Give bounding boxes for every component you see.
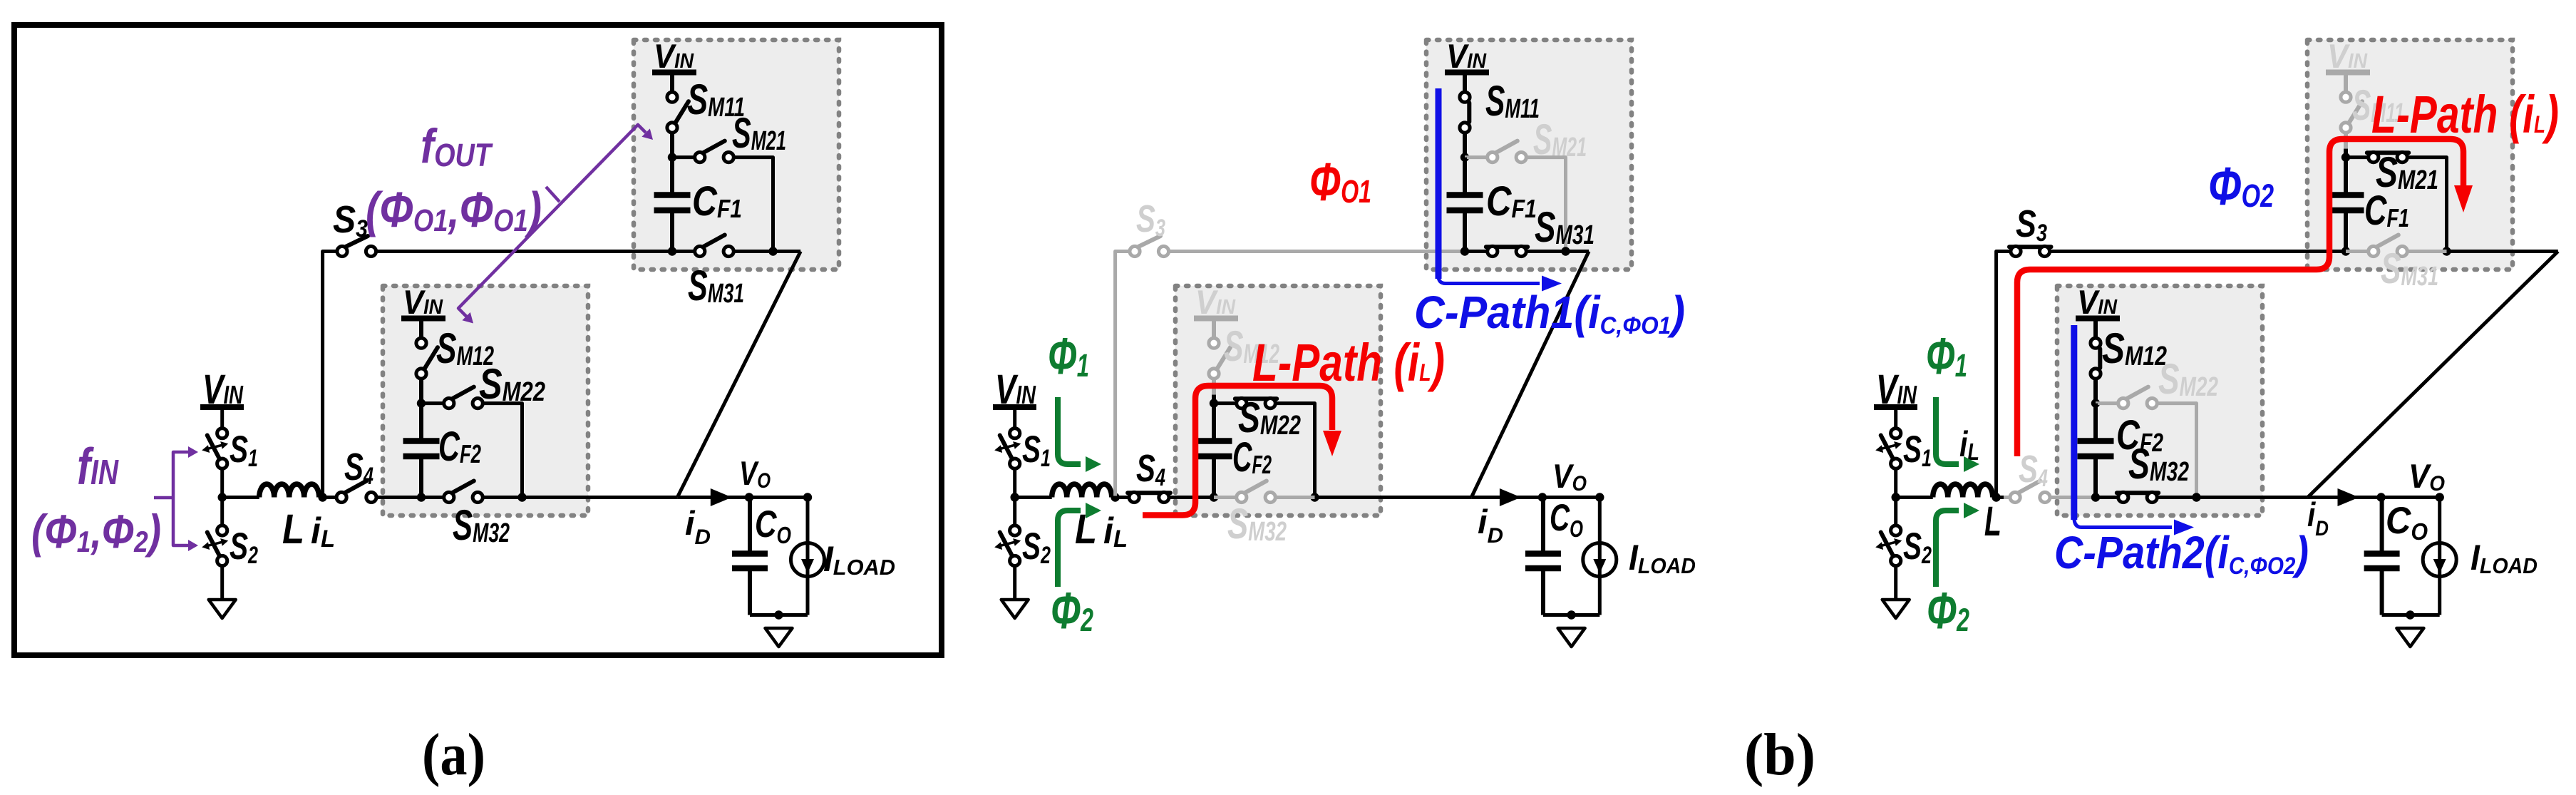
switch SM21 (circuit a) <box>703 141 725 153</box>
wire VIN to SM12 (circuit b) <box>1212 319 1216 338</box>
wire CF2 rail to output (circuit a) <box>522 496 678 499</box>
junction cap top node (circuit c CF1) <box>2341 153 2350 161</box>
wire SM22 to cell right leg (circuit c) <box>2157 404 2196 498</box>
junction right leg to rail (circuit a CF2) <box>517 493 526 501</box>
wire junction to capacitor (circuit b) <box>1212 404 1216 439</box>
junction right leg to rail (circuit b CF2) <box>1310 493 1319 501</box>
junction cap top node (circuit c CF2) <box>2091 399 2100 407</box>
wire capacitor to rail (circuit c) <box>2093 456 2098 498</box>
wire junction to capacitor (circuit a) <box>419 404 423 439</box>
wire junction to SM22 (circuit a) <box>421 401 444 405</box>
current source ILOAD (circuit a) <box>791 543 825 577</box>
wire SM11 to junction (circuit b) <box>1463 133 1467 158</box>
wire CO to bottom rail (circuit c) <box>2380 568 2384 615</box>
junction riser node (circuit a) <box>318 493 326 501</box>
ground output (circuit a) <box>766 628 793 647</box>
wire S3 to CF1 cell (circuit b) <box>1169 250 1465 253</box>
node VO (circuit c) <box>2376 493 2385 501</box>
VIN bar in cell (circuit c CF2) <box>2076 316 2120 322</box>
wire VO to load branch (circuit a) <box>749 498 808 543</box>
panel (a) border frame <box>14 25 942 655</box>
switch SM31 (circuit c) <box>2376 235 2399 247</box>
bottom rail of output (circuit c) <box>2382 613 2440 617</box>
wire SM12 to junction (circuit b) <box>1212 379 1216 404</box>
VIN bar in cell (circuit a CF2) <box>401 316 445 322</box>
annotation fOUT leader arrows (circuit a) <box>546 187 560 202</box>
junction right leg to rail (circuit a CF1) <box>768 247 777 255</box>
junction right leg to rail (circuit c CF2) <box>2192 493 2200 501</box>
VIN bar in cell (circuit c CF1) <box>2326 70 2370 76</box>
wire capacitor to rail (circuit c) <box>2344 210 2348 252</box>
VIN bar in cell (circuit a CF1) <box>652 70 696 76</box>
VIN supply bar (circuit a) <box>200 404 244 410</box>
junction cap bottom node (circuit c CF1) <box>2341 247 2350 255</box>
capacitor CF1 (circuit c) <box>2328 192 2364 198</box>
switch S4 (circuit b) <box>1128 491 1170 495</box>
switch SM22 (circuit b) <box>1235 396 1277 401</box>
VIN bar in cell (circuit b CF1) <box>1445 70 1489 76</box>
wire S3 to CF1 cell (circuit a) <box>376 250 673 253</box>
diagonal wire CF1 to output (circuit b) <box>1471 252 1589 498</box>
rail through SM32 (circuit b) <box>1214 496 1237 499</box>
wire junction to SM21 (circuit a) <box>672 155 695 159</box>
wire node to S2 (circuit c) <box>1894 498 1897 526</box>
annotation C-Path1 blue route (circuit b) <box>1436 88 1442 279</box>
node VO (circuit a) <box>745 493 753 501</box>
bottom rail of output (circuit b) <box>1543 613 1599 617</box>
junction output ground node (circuit b) <box>1567 610 1575 619</box>
rail through SM32 (circuit a) <box>421 496 444 499</box>
wire riser node to S4 (circuit b) <box>1116 496 1130 499</box>
junction cap top node (circuit a CF1) <box>668 153 676 161</box>
wire riser to top rail (circuit c) <box>1997 252 2011 496</box>
cell box CF2 (circuit a) <box>383 286 588 516</box>
wire VIN to SM11 (circuit b) <box>1463 73 1467 92</box>
wire output rail with iD arrow (circuit b) <box>1471 496 1542 499</box>
switch SM32 (circuit b) <box>1245 481 1267 493</box>
wire junction to SM21 (circuit c) <box>2346 155 2369 159</box>
wire VO down to CO (circuit a) <box>748 498 752 554</box>
ground (circuit a) <box>209 600 236 618</box>
capacitor CF2 (circuit c) <box>2078 438 2114 444</box>
inductor L (circuit b) <box>1052 484 1112 497</box>
wire VO down to CO (circuit c) <box>2380 498 2384 554</box>
wire node to inductor (circuit b) <box>1015 496 1052 499</box>
junction cap bottom node (circuit a CF2) <box>417 493 426 501</box>
wire SM21 to cell right leg (circuit b) <box>1526 158 1565 252</box>
junction switch node (circuit a) <box>218 493 227 501</box>
wire junction to SM22 (circuit c) <box>2096 401 2118 405</box>
wire S1 to node (circuit b) <box>1013 468 1016 498</box>
wire junction to SM22 (circuit b) <box>1214 401 1237 405</box>
capacitor CF2 (circuit b) <box>1196 438 1232 444</box>
capacitor CO (circuit a) <box>732 550 768 557</box>
junction riser node (circuit c) <box>1992 493 2000 501</box>
switch SM22 (circuit a) <box>452 387 474 399</box>
wire node to inductor (circuit c) <box>1896 496 1933 499</box>
VIN supply bar (circuit c) <box>1874 404 1917 410</box>
switch SM31 (circuit a) <box>703 235 725 247</box>
switch S1 (circuit b) <box>1010 429 1020 438</box>
inductor L (circuit a) <box>259 484 319 497</box>
junction cap bottom node (circuit b CF2) <box>1210 493 1218 501</box>
svg-text:L-Path (iL): L-Path (iL) <box>1252 333 1445 392</box>
junction cap top node (circuit b CF1) <box>1460 153 1469 161</box>
wire CF1 rail to diagonal (circuit a) <box>773 250 801 253</box>
junction switch node (circuit c) <box>1892 493 1900 501</box>
wire output rail with iD arrow (circuit c) <box>2308 496 2381 499</box>
wire junction to capacitor (circuit c) <box>2093 404 2098 439</box>
wire VIN to S1 (circuit b) <box>1013 407 1016 429</box>
wire inductor to riser node (circuit c) <box>1992 496 1996 499</box>
junction cap bottom node (circuit c CF2) <box>2091 493 2100 501</box>
wire S2 to ground (circuit a) <box>220 565 224 600</box>
ground (circuit c) <box>1882 600 1910 618</box>
wire VO to load branch (circuit c) <box>2381 498 2440 543</box>
wire node to S2 (circuit b) <box>1013 498 1016 526</box>
wire S4 to CF2 cell (circuit a) <box>376 496 424 499</box>
wire VIN to SM12 (circuit c) <box>2093 319 2098 338</box>
wire VIN to SM11 (circuit a) <box>670 73 674 92</box>
wire SM12 to junction (circuit c) <box>2093 379 2098 404</box>
wire S3 to CF1 cell (circuit c) <box>2050 250 2346 253</box>
VIN bar in cell (circuit b CF2) <box>1194 316 1238 322</box>
wire capacitor to rail (circuit a) <box>670 210 674 252</box>
wire CO to bottom rail (circuit b) <box>1541 568 1545 615</box>
switch SM22 (circuit c) <box>2126 387 2148 399</box>
wire VO to load branch (circuit b) <box>1542 498 1599 543</box>
wire inductor to riser node (circuit b) <box>1111 496 1115 499</box>
switch SM32 (circuit c) <box>2117 491 2158 495</box>
switch SM32 (circuit a) <box>452 481 474 493</box>
wire SM21 to cell right leg (circuit c) <box>2407 158 2446 252</box>
inductor L (circuit c) <box>1933 484 1993 497</box>
wire SM22 to cell right leg (circuit a) <box>483 404 522 498</box>
capacitor CF1 (circuit a) <box>654 192 691 198</box>
VIN supply bar (circuit b) <box>993 404 1036 410</box>
current source ILOAD (circuit c) <box>2423 543 2456 577</box>
rail through SM31 (circuit b) <box>1465 250 1488 253</box>
wire VIN to SM12 (circuit a) <box>419 319 423 338</box>
wire VIN to S1 (circuit a) <box>220 407 224 429</box>
junction right leg to rail (circuit c CF1) <box>2442 247 2451 255</box>
junction riser node (circuit b) <box>1111 493 1119 501</box>
svg-text:L: L <box>282 506 304 553</box>
wire S4 to CF2 cell (circuit b) <box>1169 496 1217 499</box>
wire CO to bottom rail (circuit a) <box>748 568 752 615</box>
wire CF1 rail to diagonal (circuit c) <box>2447 250 2558 253</box>
rail through SM31 (circuit a) <box>672 250 695 253</box>
junction cap bottom node (circuit b CF1) <box>1460 247 1469 255</box>
switch SM21 (circuit b) <box>1495 141 1518 153</box>
switch SM21 (circuit c) <box>2367 150 2408 155</box>
wire VO down to CO (circuit b) <box>1541 498 1545 554</box>
wire capacitor to rail (circuit b) <box>1212 456 1216 498</box>
wire SM11 to junction (circuit c) <box>2344 133 2348 158</box>
junction cap top node (circuit b CF2) <box>1210 399 1218 407</box>
wire riser node to S4 (circuit c) <box>1997 496 2004 499</box>
annotation fIN bracket arrows (circuit a) <box>173 452 191 545</box>
capacitor CO (circuit c) <box>2364 550 2400 557</box>
capacitor CF2 (circuit a) <box>403 438 440 444</box>
wire S2 to ground (circuit b) <box>1013 565 1016 600</box>
switch S1 (circuit a) <box>217 429 227 438</box>
annotation L-Path red route (circuit c) <box>2017 139 2463 456</box>
wire S4 to CF2 cell (circuit c) <box>2050 496 2098 499</box>
annotation phi2 green arrow (circuit c) <box>1936 511 1959 587</box>
wire SM11 to junction (circuit a) <box>670 133 674 158</box>
ground output (circuit c) <box>2396 628 2423 647</box>
wire SM12 to junction (circuit a) <box>419 379 423 404</box>
bottom rail of output (circuit a) <box>750 613 808 617</box>
wire VIN to SM11 (circuit c) <box>2344 73 2348 92</box>
wire load branch to bottom rail (circuit b) <box>1598 577 1602 615</box>
current source ILOAD (circuit b) <box>1583 543 1617 577</box>
switch S3 (circuit c) <box>2009 245 2051 249</box>
switch SM12 (circuit b) <box>1217 347 1230 369</box>
switch S4 (circuit c) <box>2018 481 2040 493</box>
junction cap bottom node (circuit a CF1) <box>668 247 676 255</box>
wire load branch to bottom rail (circuit c) <box>2438 577 2441 615</box>
wire load branch to bottom rail (circuit a) <box>806 577 810 615</box>
wire capacitor to rail (circuit b) <box>1463 210 1467 252</box>
wire junction to capacitor (circuit c) <box>2344 158 2348 193</box>
wire riser to top rail (circuit b) <box>1116 252 1130 496</box>
wire CF2 rail to output (circuit c) <box>2196 496 2308 499</box>
switch SM11 (circuit b) <box>1467 103 1471 122</box>
wire S1 to node (circuit a) <box>220 468 224 498</box>
annotation phi1 green arrow (circuit b) <box>1058 397 1081 464</box>
switch SM11 (circuit c) <box>2349 101 2362 123</box>
switch SM12 (circuit c) <box>2098 349 2102 368</box>
capacitor CF1 (circuit b) <box>1447 192 1483 198</box>
annotation phi2 green arrow (circuit b) <box>1058 511 1081 587</box>
switch SM11 (circuit a) <box>675 101 689 123</box>
cell box CF1 (circuit c) <box>2307 40 2513 270</box>
wire SM22 to cell right leg (circuit b) <box>1275 404 1314 498</box>
wire S1 to node (circuit c) <box>1894 468 1897 498</box>
wire riser node to S4 (circuit a) <box>323 496 337 499</box>
ground output (circuit b) <box>1558 628 1585 647</box>
ground (circuit b) <box>1001 600 1029 618</box>
switch S2 (circuit c) <box>1891 525 1901 535</box>
junction output ground node (circuit c) <box>2406 610 2414 619</box>
wire junction to SM21 (circuit b) <box>1465 155 1488 159</box>
switch S3 (circuit b) <box>1138 236 1160 247</box>
junction right leg to rail (circuit b CF1) <box>1561 247 1570 255</box>
junction cap top node (circuit a CF2) <box>417 399 426 407</box>
cell box CF1 (circuit b) <box>1426 40 1632 270</box>
cell box CF2 (circuit c) <box>2057 286 2262 516</box>
switch S1 (circuit c) <box>1891 429 1901 438</box>
switch S2 (circuit a) <box>217 525 227 535</box>
cell box CF2 (circuit b) <box>1175 286 1381 516</box>
switch S4 (circuit a) <box>344 481 366 493</box>
wire junction to capacitor (circuit a) <box>670 158 674 193</box>
switch S3 (circuit a) <box>345 236 368 247</box>
wire VIN to S1 (circuit c) <box>1894 407 1897 429</box>
annotation phi1 green arrow (circuit c) <box>1936 397 1959 464</box>
diagonal wire CF1 to output (circuit c) <box>2308 252 2558 498</box>
node VO (circuit b) <box>1538 493 1547 501</box>
svg-text:(a): (a) <box>422 722 485 788</box>
diagonal wire CF1 to output (circuit a) <box>677 252 800 498</box>
switch SM12 (circuit a) <box>424 347 438 369</box>
wire node to inductor (circuit a) <box>222 496 259 499</box>
wire S2 to ground (circuit c) <box>1894 565 1897 600</box>
wire node to S2 (circuit a) <box>220 498 224 526</box>
rail through SM32 (circuit c) <box>2096 496 2118 499</box>
capacitor CO (circuit b) <box>1525 550 1561 557</box>
wire CF2 rail to output (circuit b) <box>1315 496 1472 499</box>
annotation L-Path red route (circuit b) <box>1143 386 1332 516</box>
switch SM31 (circuit b) <box>1486 245 1527 249</box>
wire inductor to riser node (circuit a) <box>319 496 322 499</box>
annotation C-Path2 blue route (circuit c) <box>2071 325 2077 520</box>
cell box CF1 (circuit a) <box>634 40 839 270</box>
wire CF1 rail to diagonal (circuit b) <box>1566 250 1590 253</box>
wire junction to capacitor (circuit b) <box>1463 158 1467 193</box>
svg-text:(b): (b) <box>1744 722 1815 788</box>
wire capacitor to rail (circuit a) <box>419 456 423 498</box>
svg-text:L: L <box>1984 498 2001 545</box>
wire riser to top rail (circuit a) <box>323 252 337 496</box>
wire output rail with iD arrow (circuit a) <box>677 496 749 499</box>
junction output ground node (circuit a) <box>774 610 783 619</box>
wire SM21 to cell right leg (circuit a) <box>733 158 773 252</box>
rail through SM31 (circuit c) <box>2346 250 2369 253</box>
switch S2 (circuit b) <box>1010 525 1020 535</box>
svg-text:L-Path (iL): L-Path (iL) <box>2371 85 2559 144</box>
junction switch node (circuit b) <box>1011 493 1019 501</box>
